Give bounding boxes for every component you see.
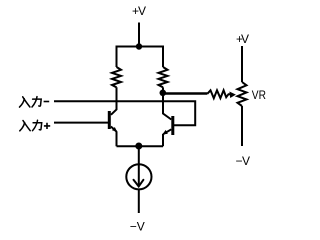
wire right column -V lead [241, 106, 243, 146]
wire R1 bottom to Q1 collector [111, 87, 117, 115]
potentiometer VR body [238, 82, 247, 106]
wire Q1 emitter [111, 127, 117, 147]
wire tail node to current source [138, 146, 140, 164]
wire Q2 collector [163, 93, 171, 120]
wire input plus line [54, 122, 108, 124]
wire emitter join [117, 145, 164, 147]
wire right column +V lead [241, 46, 243, 82]
wire left branch down to R1 [116, 46, 118, 68]
wire collector node to RW (horizontal) [163, 92, 207, 94]
label input plus (kanji) [20, 120, 50, 131]
svg-text:−V: −V [236, 154, 251, 168]
wire top rail [116, 46, 165, 48]
resistor RW (wiper series) [207, 90, 232, 98]
transistor Q1 base bar [108, 111, 111, 129]
resistor R2 (right load) [159, 67, 168, 87]
transistor Q1 emitter arrowhead [112, 127, 117, 132]
current source I1 circle [126, 164, 151, 189]
label input minus (kanji) [20, 97, 50, 107]
wire input minus line [54, 101, 195, 125]
transistor Q2 emitter arrowhead [162, 130, 167, 135]
wire right branch down to R2 [162, 46, 164, 68]
svg-text:VR: VR [252, 89, 266, 102]
wire R2 bottom to collector node [162, 87, 164, 93]
wire current source to -V [138, 190, 140, 213]
potentiometer VR wiper arrowhead [229, 92, 236, 99]
wire +V supply lead [138, 23, 140, 47]
wire Q2 emitter [163, 129, 171, 146]
svg-text:+V: +V [236, 32, 249, 46]
resistor R1 (left load) [112, 67, 121, 87]
node emitter tail junction [135, 143, 142, 150]
node Q2 collector junction [160, 90, 167, 97]
current source I1 arrow shaft [138, 165, 140, 186]
current source I1 arrowhead [134, 180, 144, 187]
transistor Q2 base bar [171, 116, 174, 135]
svg-text:−V: −V [130, 219, 145, 231]
node supply junction [136, 43, 142, 49]
svg-text:+V: +V [132, 4, 146, 18]
